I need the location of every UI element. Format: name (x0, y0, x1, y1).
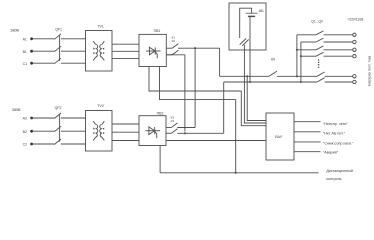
breaker QF1 (54, 28, 62, 64)
battery box GB (229, 3, 266, 50)
node bus B row4 (300, 55, 302, 57)
terminal B2 (23, 130, 33, 134)
wire UZ1 bottom sense 2 (160, 67, 236, 173)
wire K9 line (220, 75, 269, 77)
wire UZ2 output B east and riser to row6 (177, 82, 224, 133)
svg-text:380В: 380В (10, 28, 19, 32)
svg-text:С1: С1 (23, 62, 28, 66)
wire remote monitoring line (160, 172, 319, 174)
transformer TV1 box (86, 24, 113, 71)
terminal A2 (23, 117, 33, 121)
feeder row 5 switch (317, 72, 356, 78)
svg-text:ТV2: ТV2 (97, 104, 103, 108)
node battery line / right bus (300, 81, 302, 83)
label remote monitoring (326, 169, 352, 181)
svg-text:А2: А2 (23, 117, 27, 121)
contactor pole on UZ1 output B (166, 50, 178, 55)
feeder row 2 (301, 38, 356, 44)
wire QF2 phase C to TV2 (61, 143, 86, 145)
wire control unit output 1 (294, 121, 321, 123)
wire riser channel2 output A joins channel1 (194, 48, 196, 127)
svg-text:АБ: АБ (259, 9, 264, 13)
svg-text:“Нет АБ пит.”: “Нет АБ пит.” (323, 131, 346, 135)
wire UZ1 bottom sense 1 (149, 67, 266, 126)
wire control unit output 4 (294, 151, 321, 153)
node tap on K9 line (246, 75, 248, 77)
svg-text:К2: К2 (172, 39, 176, 43)
wire battery contact down (bat minus) (244, 45, 266, 123)
terminal A1 (23, 37, 33, 41)
wire control unit output 2 (294, 131, 321, 133)
node bus A row3 (296, 49, 298, 51)
switch K9 (269, 58, 277, 77)
contactor K3 on UZ2 output A (166, 116, 178, 128)
breaker QF2 (54, 106, 61, 144)
wire tap K9-line to control unit in1 (247, 76, 266, 120)
svg-text:В1: В1 (23, 50, 27, 54)
wire phase C2 to QF2 (33, 143, 54, 145)
wire phase A2 to QF2 (33, 117, 54, 119)
control unit BAU box (266, 113, 294, 160)
feeder row 6 switch (317, 78, 356, 84)
svg-text:380В: 380В (12, 108, 21, 112)
wire TV1 out 3 to rectifier UZ1 (112, 57, 139, 59)
contactor K1 on UZ1 output A (166, 36, 178, 49)
node UZ2-B / channel1-B riser (184, 132, 186, 134)
svg-text:БАУ: БАУ (275, 135, 283, 139)
contactor pole on UZ2 output B (166, 129, 178, 134)
svg-text:“Неиспр. сети”: “Неиспр. сети” (323, 122, 348, 126)
svg-text:=220/110В: =220/110В (348, 17, 365, 21)
wire UZ2 output A to riser (177, 127, 195, 129)
svg-text:ТV1: ТV1 (97, 24, 103, 28)
svg-text:ПВ1: ПВ1 (154, 29, 161, 33)
wire UZ2 bottom stub to remote line (159, 146, 161, 173)
wire QF2 phase A to TV2 (61, 117, 86, 119)
wire battery top plate loop to contact (240, 8, 252, 38)
wire row6 feed from channel 2 riser (224, 81, 317, 83)
wire UZ1 output A east (178, 47, 220, 49)
wire TV1 out 1 to rectifier UZ1 (112, 43, 139, 45)
wire UZ1 output A down to K9 line (219, 48, 221, 76)
wire QF2 phase B to TV2 (61, 130, 86, 132)
DC bus A (left) (296, 35, 298, 77)
svg-text:Дистанционный: Дистанционный (326, 169, 352, 173)
rectifier UZ1 box (139, 29, 166, 66)
wire TV1 out 2 to rectifier UZ1 (112, 50, 139, 52)
wire QF1 phase C to TV1 (61, 62, 86, 64)
transformer TV2 winding symbol (93, 121, 104, 140)
svg-text:“Авария”: “Авария” (323, 150, 339, 154)
terminal B1 (23, 50, 33, 54)
feeder row 3 (297, 46, 356, 52)
DC bus B (right) (300, 42, 302, 82)
svg-text:QF1: QF1 (55, 28, 62, 32)
svg-text:А1: А1 (23, 37, 27, 41)
wire phase C1 to QF1 (33, 62, 54, 64)
svg-text:В2: В2 (23, 130, 27, 134)
wire phase B1 to QF1 (33, 50, 54, 52)
svg-text:ПВ2: ПВ2 (157, 112, 164, 116)
wire QF1 phase B to TV1 (61, 50, 86, 52)
feeder row 4 (301, 52, 356, 58)
node battery plus on row6 feed (249, 81, 251, 83)
svg-text:контроль: контроль (326, 177, 341, 181)
battery GB plates (246, 13, 258, 16)
svg-text:С2: С2 (23, 143, 28, 147)
ellipsis dots between feeders (318, 59, 320, 68)
rectifier UZ2 box (139, 112, 166, 146)
wire TV2 out 2 to rectifier UZ2 (112, 131, 139, 133)
transformer TV2 box (86, 104, 113, 151)
terminal C1 (23, 62, 33, 66)
wire UZ1 output B east then down (166, 55, 185, 132)
thyristor VS1 inside UZ1 (146, 47, 161, 58)
transformer TV1 winding symbol (93, 41, 104, 60)
wire phase A1 to QF1 (33, 38, 54, 40)
terminal C2 (23, 143, 33, 147)
thyristor VS2 inside UZ2 (146, 127, 161, 138)
wire TV2 out 1 to rectifier UZ2 (112, 123, 139, 125)
node junction UZ1-A / UZ2-A (194, 47, 196, 49)
svg-text:“Сниж.сопр.изол.”: “Сниж.сопр.изол.” (323, 141, 354, 145)
wire QF1 phase A to TV1 (61, 38, 86, 40)
wire battery bottom plate down (bat plus) (249, 16, 251, 82)
svg-text:Нагрузки пост. тока: Нагрузки пост. тока (367, 56, 371, 86)
wire control unit output 3 (294, 141, 321, 143)
wire phase B2 to QF2 (33, 130, 54, 132)
wire TV2 out 3 to rectifier UZ2 (112, 140, 139, 142)
feeder row 1 (297, 31, 356, 37)
battery contactor contact (240, 39, 249, 46)
svg-text:К9: К9 (271, 58, 275, 62)
svg-text:QF2: QF2 (55, 106, 62, 110)
svg-text:К4: К4 (171, 119, 175, 123)
wire K9 to DC bus row5 (277, 75, 317, 77)
node remote line / sense riser (235, 172, 237, 174)
svg-text:Q1...Qn: Q1...Qn (311, 20, 323, 24)
wire UZ2 lower line to control unit in4 (166, 140, 266, 142)
node K9 line / left bus (296, 75, 298, 77)
